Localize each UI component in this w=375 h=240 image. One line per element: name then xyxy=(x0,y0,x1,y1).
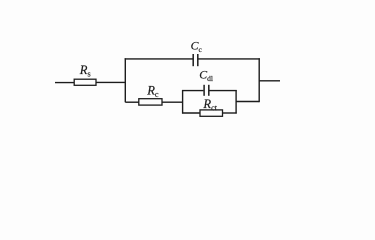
wire R_s to left node xyxy=(96,81,125,83)
block top rail left xyxy=(182,90,203,92)
wire block to right node xyxy=(236,101,259,103)
svg-text:Cdl: Cdl xyxy=(199,68,213,83)
resistor R_ct box xyxy=(200,110,223,116)
block bottom rail right xyxy=(223,112,237,114)
svg-text:Rc: Rc xyxy=(146,83,159,99)
wire top rail right xyxy=(199,58,260,60)
block top rail right xyxy=(210,90,237,92)
resistor R_c box xyxy=(139,99,162,105)
wire R_c to block xyxy=(162,101,183,103)
svg-text:Rct: Rct xyxy=(202,97,217,113)
capacitor C_dl plates xyxy=(203,85,205,96)
wire middle rail left xyxy=(125,101,139,103)
wire output right xyxy=(259,80,280,82)
capacitor C_c plates xyxy=(192,54,194,66)
svg-text:Rs: Rs xyxy=(79,63,91,79)
wire input left xyxy=(55,82,74,84)
block bottom rail left xyxy=(182,112,200,114)
block right vertical xyxy=(235,90,237,114)
node right vertical xyxy=(258,58,260,102)
resistor R_s box xyxy=(74,79,96,85)
block left vertical xyxy=(182,90,184,114)
svg-text:Cc: Cc xyxy=(191,39,203,54)
wire top rail left xyxy=(125,58,193,60)
node left vertical xyxy=(124,58,126,102)
